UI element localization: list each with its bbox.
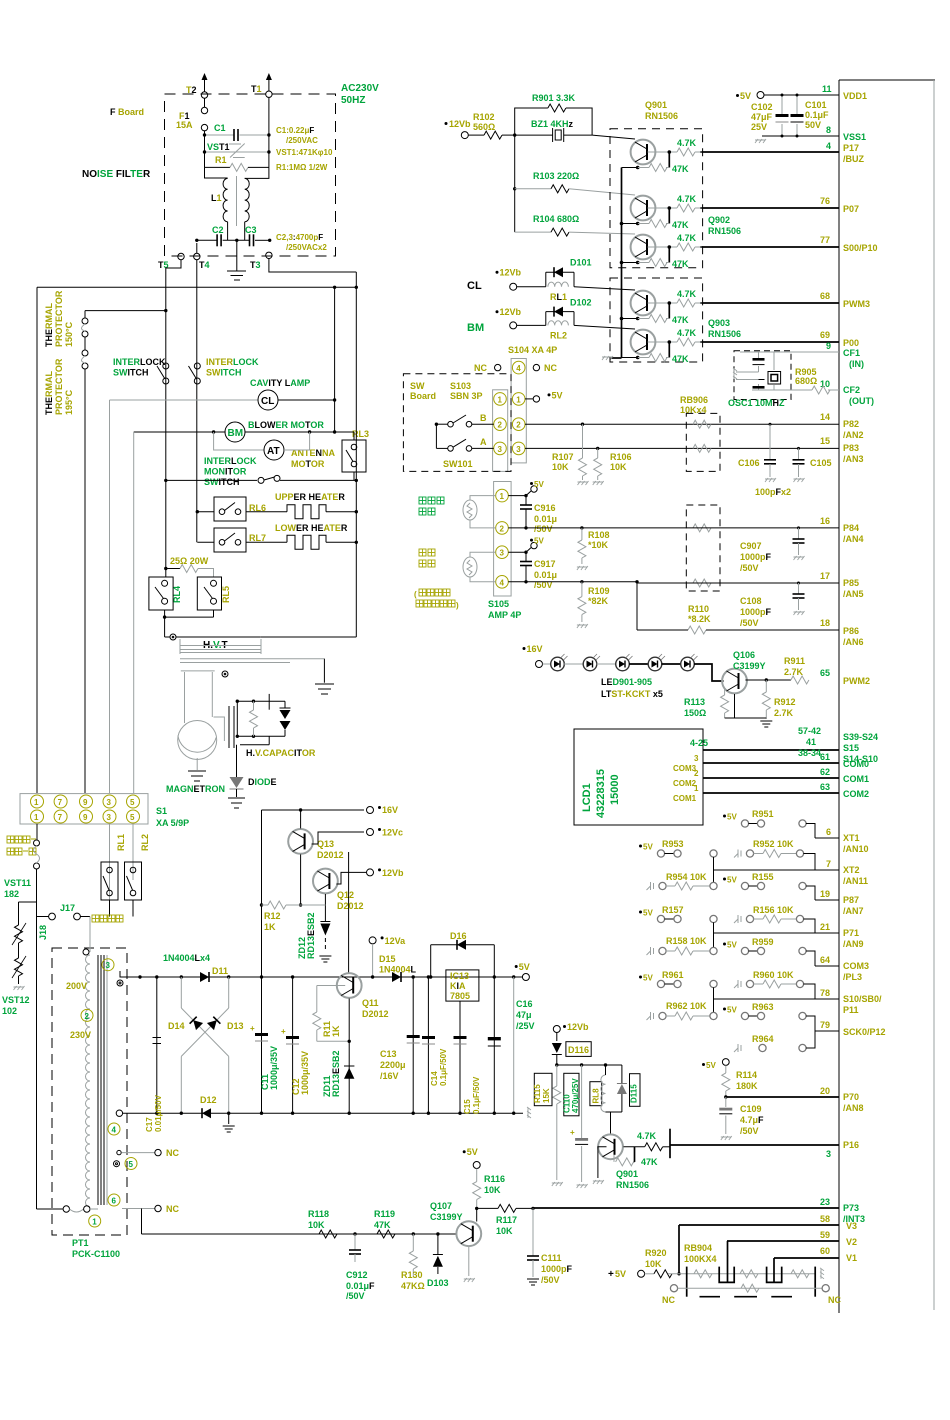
svg-text:5V: 5V xyxy=(643,843,653,852)
svg-text:S103: S103 xyxy=(450,381,471,391)
transistor Q106 xyxy=(694,650,766,693)
svg-text:200V: 200V xyxy=(66,981,87,991)
ground under diode xyxy=(228,798,245,808)
svg-text:1: 1 xyxy=(498,395,503,404)
svg-text:RL1: RL1 xyxy=(116,834,126,851)
HVT filament winding xyxy=(181,671,215,723)
svg-text:R117: R117 xyxy=(496,1215,517,1225)
svg-text:R1: R1 xyxy=(215,155,227,165)
svg-text:Q12: Q12 xyxy=(337,890,354,900)
svg-text:5V: 5V xyxy=(727,941,737,950)
svg-text:1: 1 xyxy=(500,492,505,501)
svg-text:16V: 16V xyxy=(382,805,398,815)
transistor Q12 xyxy=(313,869,364,921)
capacitor C14 xyxy=(422,975,448,1115)
svg-text:230V: 230V xyxy=(70,1030,91,1040)
resistor R905 680ohm xyxy=(795,367,830,394)
svg-text:1000μ/35V: 1000μ/35V xyxy=(300,1051,310,1095)
label voltage select xyxy=(92,915,123,922)
svg-text:(IN): (IN) xyxy=(849,359,864,369)
node filament xyxy=(222,671,228,677)
svg-text:5: 5 xyxy=(130,813,135,822)
svg-text:19: 19 xyxy=(820,889,830,899)
svg-text:5V: 5V xyxy=(534,480,544,489)
svg-text:69: 69 xyxy=(820,330,830,340)
svg-text:2: 2 xyxy=(500,524,505,533)
svg-text:P85: P85 xyxy=(843,578,859,588)
svg-text:61: 61 xyxy=(820,752,830,762)
svg-text:L1: L1 xyxy=(211,193,222,203)
svg-text:MONITOR: MONITOR xyxy=(204,467,247,477)
svg-text:S1: S1 xyxy=(156,806,167,816)
relay RL7 xyxy=(197,528,266,552)
zener ZD11 xyxy=(322,999,354,1115)
svg-text:UPPER HEATER: UPPER HEATER xyxy=(275,492,345,502)
svg-text:R959: R959 xyxy=(752,937,774,947)
svg-text:1000μ/35V: 1000μ/35V xyxy=(269,1046,279,1090)
svg-text:PCK-C1100: PCK-C1100 xyxy=(72,1249,120,1259)
svg-text:*10K: *10K xyxy=(588,540,609,550)
svg-text:59: 59 xyxy=(820,1230,830,1240)
capacitor C912 xyxy=(346,1234,375,1301)
pin 3 P16 xyxy=(670,1140,859,1159)
terminal +12Vb feed xyxy=(445,119,472,139)
svg-text:5V: 5V xyxy=(727,813,737,822)
svg-text:2200μ: 2200μ xyxy=(380,1060,406,1070)
svg-text:5V: 5V xyxy=(467,1147,478,1157)
S104 pin 4 NC stubs xyxy=(474,361,557,374)
svg-text:LTST-KCKT x5: LTST-KCKT x5 xyxy=(601,689,663,699)
svg-text:D16: D16 xyxy=(450,931,467,941)
wire P84 row xyxy=(508,526,839,529)
relay drive CL D101 RL1 xyxy=(467,258,635,303)
svg-text:D103: D103 xyxy=(427,1278,449,1288)
svg-text:C106: C106 xyxy=(738,458,760,468)
svg-text:R113: R113 xyxy=(684,697,705,707)
svg-text:1000pF: 1000pF xyxy=(740,552,772,562)
svg-text:BM: BM xyxy=(467,322,484,334)
resistor R12 xyxy=(262,901,326,932)
relay drive BM D102 RL2 xyxy=(467,298,635,341)
ground HVT secondary xyxy=(315,659,334,694)
svg-text:5V: 5V xyxy=(740,91,751,101)
connector S1 XA 5/9P xyxy=(20,794,189,828)
svg-text:15: 15 xyxy=(820,436,830,446)
svg-text:3: 3 xyxy=(107,798,112,807)
svg-text:P70: P70 xyxy=(843,1092,859,1102)
svg-text:76: 76 xyxy=(820,196,830,206)
terminal +16V LED feed xyxy=(523,644,543,668)
svg-text:Q901: Q901 xyxy=(616,1169,638,1179)
svg-text:S15: S15 xyxy=(843,743,859,753)
svg-text:P71: P71 xyxy=(843,928,859,938)
svg-text:100KX4: 100KX4 xyxy=(684,1254,717,1264)
svg-text:1N4004Lx4: 1N4004Lx4 xyxy=(163,953,210,963)
pin 15 P83/AN3 xyxy=(820,436,864,464)
svg-text:INTERLOCK: INTERLOCK xyxy=(204,456,257,466)
switch SW101 B xyxy=(436,413,493,427)
jumper J17 xyxy=(60,903,90,920)
svg-text:50HZ: 50HZ xyxy=(341,95,365,106)
svg-text:COM0: COM0 xyxy=(843,759,869,769)
svg-text:/50V: /50V xyxy=(740,563,759,573)
svg-text:LCD1: LCD1 xyxy=(581,783,593,812)
wire to Q901 base 1 xyxy=(592,135,635,139)
capacitor C109 xyxy=(719,1097,764,1140)
svg-text:+: + xyxy=(281,1027,286,1036)
svg-text:D13: D13 xyxy=(227,1021,244,1031)
svg-text:5V: 5V xyxy=(534,537,544,546)
svg-text:0.1μF/50V: 0.1μF/50V xyxy=(472,1076,481,1114)
svg-text:NC: NC xyxy=(474,363,487,373)
upper heater xyxy=(246,492,358,519)
svg-text:7805: 7805 xyxy=(450,991,470,1001)
svg-text:R110: R110 xyxy=(688,604,709,614)
capacitor C13 xyxy=(380,977,420,1115)
wire bus to HVT xyxy=(261,636,357,638)
pin 6 XT1/AN10 xyxy=(815,827,869,854)
svg-text:COM3: COM3 xyxy=(843,961,869,971)
svg-text:/50V: /50V xyxy=(534,524,553,534)
svg-text:J17: J17 xyxy=(60,903,75,913)
svg-text:8: 8 xyxy=(826,125,831,135)
transistor Q901a xyxy=(622,138,702,174)
svg-text:RL5: RL5 xyxy=(221,586,231,603)
resistor R130 47K xyxy=(401,1234,425,1291)
wire secondary bottom rail xyxy=(123,1107,531,1118)
svg-text:/AN3: /AN3 xyxy=(843,454,864,464)
svg-text:NC: NC xyxy=(662,1295,675,1305)
svg-text:6: 6 xyxy=(826,827,831,837)
svg-text:10K: 10K xyxy=(645,1259,662,1269)
svg-text:3: 3 xyxy=(826,1149,831,1159)
tap 3 200V xyxy=(66,959,123,991)
svg-text:R103 220Ω: R103 220Ω xyxy=(533,171,579,181)
svg-text:C3: C3 xyxy=(245,225,257,235)
svg-text:3: 3 xyxy=(694,754,699,763)
svg-text:5V: 5V xyxy=(643,909,653,918)
svg-text:65: 65 xyxy=(820,668,830,678)
svg-text:47μ: 47μ xyxy=(516,1010,532,1020)
resistor R11 xyxy=(313,986,349,1042)
wire magnetron to HV cap xyxy=(214,717,225,741)
svg-text:4.7μF: 4.7μF xyxy=(740,1115,764,1125)
pin 11 VDD1 xyxy=(764,84,867,101)
svg-text:C2: C2 xyxy=(212,225,224,235)
svg-text:RL2: RL2 xyxy=(550,331,567,341)
capacitor C111 xyxy=(527,1208,573,1285)
LCD pin labels xyxy=(690,738,708,793)
svg-text:78: 78 xyxy=(820,988,830,998)
zener D115 xyxy=(617,1065,640,1112)
svg-text:15K: 15K xyxy=(542,1088,551,1103)
svg-text:V2: V2 xyxy=(846,1237,857,1247)
svg-text:+: + xyxy=(608,1269,614,1280)
svg-text:47K: 47K xyxy=(672,259,689,269)
resistor R1 xyxy=(205,155,269,171)
svg-text:63: 63 xyxy=(820,782,830,792)
terminal T2 arrow xyxy=(186,73,208,98)
svg-text:/AN6: /AN6 xyxy=(843,637,864,647)
svg-text:VST1: VST1 xyxy=(207,142,230,152)
svg-text:/50V: /50V xyxy=(541,1275,560,1285)
svg-text:2: 2 xyxy=(694,769,699,778)
jumper R951 xyxy=(723,809,815,838)
svg-text:MOTOR: MOTOR xyxy=(291,459,325,469)
transistor Q13 xyxy=(288,810,343,907)
svg-text:P17: P17 xyxy=(843,143,859,153)
capacitor C1 xyxy=(203,123,271,141)
svg-text:SCK0/P12: SCK0/P12 xyxy=(843,1027,886,1037)
svg-text:F Board: F Board xyxy=(110,107,144,117)
capacitor C16 xyxy=(488,977,535,1115)
svg-text:DIODE: DIODE xyxy=(248,777,277,787)
magnetron xyxy=(166,721,225,795)
svg-text:VST11: VST11 xyxy=(4,878,31,888)
svg-text:D2012: D2012 xyxy=(337,901,364,911)
node junction dots on y=287 xyxy=(333,286,358,289)
svg-text:RL1: RL1 xyxy=(550,292,567,302)
svg-text:*82K: *82K xyxy=(588,596,609,606)
pin 20 P70/AN8 xyxy=(726,1086,864,1113)
svg-text:102: 102 xyxy=(2,1006,17,1016)
thermal protector 195C xyxy=(44,350,88,793)
svg-text:/AN7: /AN7 xyxy=(843,906,864,916)
svg-text:SWITCH: SWITCH xyxy=(113,368,149,378)
wire relay top xyxy=(555,1063,622,1066)
svg-text:0.01μ: 0.01μ xyxy=(534,570,557,580)
svg-text:100pFx2: 100pFx2 xyxy=(755,487,791,497)
wire Q12 collector xyxy=(348,852,350,973)
svg-text:5: 5 xyxy=(129,1160,134,1169)
svg-text:P82: P82 xyxy=(843,419,859,429)
svg-text:R104 680Ω: R104 680Ω xyxy=(533,214,579,224)
svg-text:/50V: /50V xyxy=(346,1291,365,1301)
resistor R103 220ohm xyxy=(515,171,635,195)
pin 78 S10/SB0/P11 xyxy=(714,988,883,1015)
pin 65 PWM2 xyxy=(820,668,870,686)
pin 76 P07 xyxy=(700,196,859,214)
jumper R959 xyxy=(723,937,815,966)
S1 pins row1 xyxy=(31,795,140,808)
resistor R115 15K xyxy=(533,1065,563,1186)
transistor Q11 xyxy=(337,973,389,1019)
jumper J18 xyxy=(37,913,56,940)
svg-text:79: 79 xyxy=(820,1020,830,1030)
svg-text:10K: 10K xyxy=(496,1226,513,1236)
svg-text:BZ1 4KHz: BZ1 4KHz xyxy=(531,119,574,129)
svg-text:4.7K: 4.7K xyxy=(677,233,697,243)
transistor Q901c xyxy=(622,233,702,269)
svg-text:NC: NC xyxy=(828,1295,841,1305)
svg-text:A: A xyxy=(480,437,487,447)
svg-text:R157: R157 xyxy=(662,905,684,915)
svg-text:D2012: D2012 xyxy=(362,1009,389,1019)
svg-text:/50V: /50V xyxy=(740,1126,759,1136)
svg-text:3: 3 xyxy=(106,961,111,970)
C916 5V filter xyxy=(508,480,557,534)
svg-text:0.01μF: 0.01μF xyxy=(346,1281,375,1291)
oscillator OSC1 xyxy=(728,351,839,408)
svg-text:10K: 10K xyxy=(308,1220,325,1230)
svg-text:25V: 25V xyxy=(751,122,767,132)
svg-text:+: + xyxy=(250,1024,255,1033)
wire RL1 RL2 risers xyxy=(110,824,134,917)
svg-text:RL7: RL7 xyxy=(249,533,266,543)
svg-text:1N4004L: 1N4004L xyxy=(379,965,417,975)
svg-text:AMP 4P: AMP 4P xyxy=(488,610,521,620)
svg-text:57-42: 57-42 xyxy=(798,726,821,736)
svg-text:/25V: /25V xyxy=(516,1021,535,1031)
svg-text:C3199Y: C3199Y xyxy=(733,661,766,671)
pins 57-42,41,38-34 S39-S24,S15,S14-S10 xyxy=(703,726,878,764)
svg-text:25Ω 20W: 25Ω 20W xyxy=(170,556,209,566)
svg-text:10: 10 xyxy=(820,379,830,389)
svg-text:470μ/25V: 470μ/25V xyxy=(571,1078,580,1113)
svg-text:COM2: COM2 xyxy=(843,789,869,799)
pin 17 P85/AN5 xyxy=(820,571,864,599)
diode D13 xyxy=(181,977,243,1056)
svg-text:R115: R115 xyxy=(533,1084,542,1103)
thermal protector 150C xyxy=(44,290,88,350)
connector S103 outline xyxy=(493,390,508,472)
svg-text:47K: 47K xyxy=(672,220,689,230)
svg-text:4.7K: 4.7K xyxy=(677,289,697,299)
svg-text:C108: C108 xyxy=(740,596,762,606)
svg-text:1: 1 xyxy=(34,813,39,822)
resistor R104 680ohm xyxy=(515,214,635,236)
label S103 SBN 3P xyxy=(450,381,483,401)
svg-text:20: 20 xyxy=(820,1086,830,1096)
interlock monitor switch xyxy=(164,456,358,487)
transformer PT1 dashed box xyxy=(52,948,127,1235)
svg-text:5V: 5V xyxy=(643,974,653,983)
svg-text:C907: C907 xyxy=(740,541,762,551)
svg-text:1000pF: 1000pF xyxy=(541,1264,573,1274)
transformer HVT core xyxy=(180,639,324,663)
svg-text:12Vb: 12Vb xyxy=(500,307,522,317)
svg-text:RD13ESB2: RD13ESB2 xyxy=(306,912,316,959)
resistor network RB906 xyxy=(680,395,720,591)
svg-text:15000: 15000 xyxy=(609,774,621,805)
capacitor C110 470u/25V xyxy=(563,1065,589,1188)
svg-text:Q106: Q106 xyxy=(733,650,755,660)
svg-text:38-34: 38-34 xyxy=(798,748,821,758)
svg-text:S39-S24: S39-S24 xyxy=(843,732,878,742)
svg-text:D115: D115 xyxy=(630,1084,639,1103)
svg-text:17: 17 xyxy=(820,571,830,581)
zener ZD12 xyxy=(297,912,331,962)
pin 60 V1 xyxy=(774,1246,857,1263)
noise filter dashed box xyxy=(165,94,336,256)
resistor R954 10K xyxy=(647,872,718,890)
svg-text:12Vb: 12Vb xyxy=(500,268,522,278)
relay RL4 xyxy=(149,577,182,610)
thermistor wires 3/4 xyxy=(470,552,496,582)
svg-text:OSC1 10MHZ: OSC1 10MHZ xyxy=(728,398,785,408)
svg-text:12Vb: 12Vb xyxy=(382,868,404,878)
svg-text:2.7K: 2.7K xyxy=(784,667,804,677)
svg-text:4-25: 4-25 xyxy=(690,738,708,748)
svg-text:R12: R12 xyxy=(264,911,281,921)
pin 62 COM1 xyxy=(703,767,869,784)
caps C907 C108 xyxy=(740,528,805,628)
svg-text:C109: C109 xyxy=(740,1104,762,1114)
svg-text:(OUT): (OUT) xyxy=(849,396,874,406)
pin 16 P84/AN4 xyxy=(820,516,864,544)
svg-text:3: 3 xyxy=(516,445,521,454)
svg-text:VSS1: VSS1 xyxy=(843,132,866,142)
svg-text:SW: SW xyxy=(410,381,425,391)
svg-text:R952 10K: R952 10K xyxy=(753,839,794,849)
label SW Board xyxy=(410,381,436,401)
pin 69 P00 xyxy=(700,330,859,348)
pin 64 COM3/PL3 xyxy=(815,955,869,982)
svg-text:C111: C111 xyxy=(541,1253,562,1263)
svg-text:15A: 15A xyxy=(176,120,193,130)
lower heater xyxy=(246,523,358,549)
svg-text:RB906: RB906 xyxy=(680,395,708,405)
svg-text:T2: T2 xyxy=(186,85,197,95)
svg-text:6: 6 xyxy=(112,1197,117,1206)
svg-text:*8.2K: *8.2K xyxy=(688,614,711,624)
svg-text:47K: 47K xyxy=(641,1157,658,1167)
svg-text:R1:1MΩ 1/2W: R1:1MΩ 1/2W xyxy=(276,163,328,172)
wire left main bus xyxy=(37,287,356,793)
svg-text:4: 4 xyxy=(112,1126,117,1135)
inductor L1 xyxy=(205,167,269,240)
wire P83 row xyxy=(525,447,839,450)
svg-text:47K: 47K xyxy=(672,164,689,174)
svg-text:Q11: Q11 xyxy=(362,998,379,1008)
svg-text:CF1: CF1 xyxy=(843,348,860,358)
svg-text:3: 3 xyxy=(500,549,505,558)
svg-text:LED901-905: LED901-905 xyxy=(601,677,652,687)
relay coil RL2 xyxy=(110,834,151,917)
svg-text:R118: R118 xyxy=(308,1209,329,1219)
svg-text:560Ω: 560Ω xyxy=(473,122,495,132)
diode D116 xyxy=(552,1042,591,1065)
diode D11 xyxy=(180,966,231,982)
svg-text:RL8: RL8 xyxy=(592,1088,601,1104)
svg-text:4: 4 xyxy=(826,141,831,151)
svg-text:LOWER HEATER: LOWER HEATER xyxy=(275,523,348,533)
pin 59 V2 xyxy=(727,1230,857,1247)
svg-text:R961: R961 xyxy=(662,970,684,980)
svg-text:4: 4 xyxy=(500,578,505,587)
jumper R953 xyxy=(639,839,717,883)
svg-text:SWITCH: SWITCH xyxy=(206,368,242,378)
thermistor wires 1/2 xyxy=(470,496,496,528)
LED D905 xyxy=(662,654,698,671)
tap 1 xyxy=(89,1215,101,1227)
svg-text:R920: R920 xyxy=(645,1248,667,1258)
svg-text:R155: R155 xyxy=(752,872,774,882)
svg-text:C917: C917 xyxy=(534,559,556,569)
svg-text:0.1μF/50V: 0.1μF/50V xyxy=(439,1048,448,1086)
svg-text:Q901: Q901 xyxy=(645,100,667,110)
svg-text:C15: C15 xyxy=(463,1099,472,1114)
label C1 value xyxy=(276,126,318,145)
svg-text:11: 11 xyxy=(822,84,832,94)
varistor VST11 xyxy=(4,878,37,945)
svg-text:23: 23 xyxy=(820,1197,830,1207)
pin 8 VSS1 xyxy=(762,125,866,142)
svg-text:D15: D15 xyxy=(379,954,396,964)
svg-text:S104 XA 4P: S104 XA 4P xyxy=(508,345,557,355)
pin 10 CF2 xyxy=(820,379,874,406)
terminals T5 T4 T3 xyxy=(158,252,272,270)
